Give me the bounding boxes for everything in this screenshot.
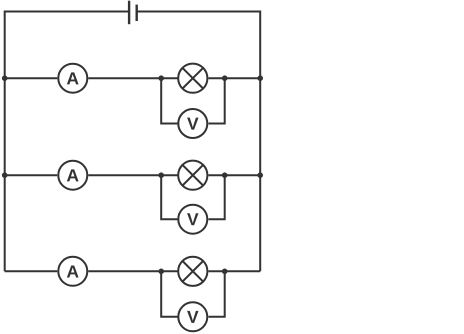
battery cell long plate: [128, 1, 130, 25]
junction dot right branch1: [257, 75, 263, 81]
wire branch1 left: [5, 77, 58, 79]
voltmeter V2: [178, 205, 207, 234]
junction dot right branch2: [257, 172, 263, 178]
wire voltmeter V3 loop: [161, 271, 177, 317]
junction dot left branch1: [2, 75, 8, 81]
lamp L3: [178, 257, 207, 286]
battery cell short plate: [135, 5, 137, 21]
wire branch3 right: [209, 270, 261, 272]
junction dot lamp3 right: [222, 269, 228, 275]
wire branch2 middle: [88, 174, 177, 176]
voltmeter V3: [178, 302, 207, 331]
wire branch3 left: [5, 270, 58, 272]
junction dot lamp2 right: [222, 172, 228, 178]
junction dot lamp3 left: [158, 269, 164, 275]
wire branch2 left: [5, 174, 58, 176]
junction dot lamp1 left: [158, 75, 164, 81]
wire branch3 middle: [88, 270, 177, 272]
junction dot lamp1 right: [222, 75, 228, 81]
ammeter A2: [58, 161, 87, 190]
wire voltmeter V2 loop: [161, 175, 177, 219]
junction dot left branch2: [2, 172, 8, 178]
wire top-right segment: [137, 12, 261, 272]
ammeter A3: [58, 257, 87, 286]
wire top-left segment: [5, 12, 129, 272]
wire branch1 middle: [88, 77, 177, 79]
voltmeter V1: [178, 109, 207, 138]
lamp L2: [178, 161, 207, 190]
junction dot lamp2 left: [158, 172, 164, 178]
wire voltmeter V1 loop: [161, 78, 177, 123]
wire branch2 right: [209, 174, 261, 176]
lamp L1: [178, 64, 207, 93]
wire branch1 right: [209, 77, 261, 79]
ammeter A1: [58, 64, 87, 93]
